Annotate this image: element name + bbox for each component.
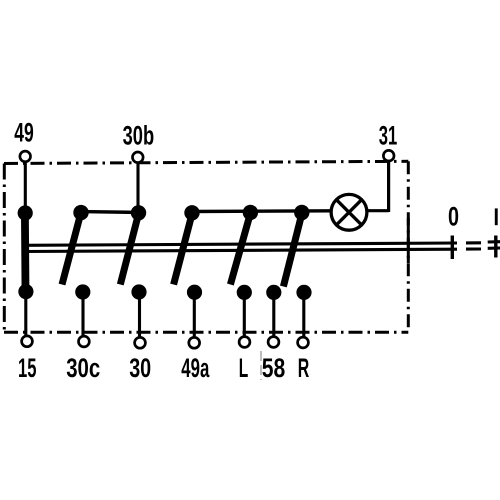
contact bar 30 (120, 214, 138, 285)
actuator rod lower line (23, 249, 457, 251)
faint section divider between L and 58 (260, 351, 262, 380)
terminal circle 30b (133, 152, 144, 163)
wire bottom dot to terminal 58 (272, 292, 275, 337)
terminal circle L (239, 337, 250, 348)
terminal circle 58 (268, 337, 279, 348)
junction dot bottom 30c (75, 284, 90, 299)
svg-text:30b: 30b (123, 120, 155, 150)
enclosure dash-dot border top (4, 161, 408, 163)
wire bottom dot to terminal L (243, 292, 246, 337)
position tick 0 (451, 236, 454, 260)
junction dot bottom R (296, 285, 311, 300)
contact bar 15/49 (closed, vertical) (21, 213, 29, 292)
junction dot top 49 (18, 205, 33, 220)
terminal circle 30 (135, 337, 146, 348)
junction dot top 30c (73, 205, 88, 220)
junction dot bottom 15 (18, 284, 33, 299)
terminal circle R (298, 337, 309, 348)
wire bottom dot to terminal 30 (138, 292, 141, 338)
svg-text:49: 49 (14, 118, 34, 148)
wire lamp to terminal 31 horizontal (366, 209, 389, 212)
svg-text:0: 0 (448, 202, 459, 232)
wire terminal 49 to top dot (24, 161, 27, 213)
terminal circle 49 (20, 151, 31, 162)
terminal circle 15 (22, 336, 33, 347)
junction dot bottom 49a (187, 285, 202, 300)
enclosure dash-dot border bottom (4, 331, 408, 334)
actuator rod upper line (23, 243, 457, 245)
junction dot top L (243, 205, 258, 220)
svg-text:L: L (239, 353, 249, 383)
junction dot bottom L (237, 285, 252, 300)
rod dashed extension lower (466, 248, 500, 249)
position tick I (494, 236, 497, 258)
rod dashed extension upper (466, 242, 500, 243)
svg-text:30: 30 (129, 353, 151, 383)
wire bottom dot to terminal 49a (193, 292, 196, 338)
svg-text:58: 58 (262, 353, 286, 383)
wire bottom dot to terminal 15 (24, 292, 27, 336)
svg-text:49a: 49a (181, 353, 210, 383)
label I position (495, 208, 498, 225)
top link wire 30c-30 (81, 210, 139, 214)
contact bar R (283, 214, 301, 287)
enclosure dash-dot border right (407, 161, 410, 332)
junction dot top 49a (184, 205, 199, 220)
svg-text:30c: 30c (66, 353, 100, 383)
wire bottom dot to terminal 30c (81, 292, 84, 336)
terminal circle 30c (79, 336, 90, 347)
terminal circle 31 (383, 150, 394, 161)
contact bar 30c (62, 214, 81, 285)
junction dot top R (294, 205, 309, 220)
junction dot top 30 (131, 205, 146, 220)
indicator lamp symbol (331, 194, 367, 230)
wire terminal 30b to top dot (136, 162, 139, 213)
svg-text:31: 31 (379, 120, 398, 150)
terminal circle 49a (189, 337, 200, 348)
contact bar L (230, 214, 250, 285)
wire lamp to terminal 31 vertical (387, 161, 390, 213)
junction dot bottom 30 (131, 284, 146, 299)
wire bottom dot to terminal R (302, 292, 305, 337)
svg-text:R: R (298, 353, 310, 383)
enclosure border right solid segment at rod crossing (407, 218, 410, 263)
enclosure dash-dot border left (3, 164, 6, 333)
svg-text:15: 15 (18, 353, 37, 383)
top link wire 49a-L-R-lamp (192, 209, 332, 213)
junction dot bottom 58 (266, 285, 281, 300)
contact bar 49a (174, 214, 192, 285)
